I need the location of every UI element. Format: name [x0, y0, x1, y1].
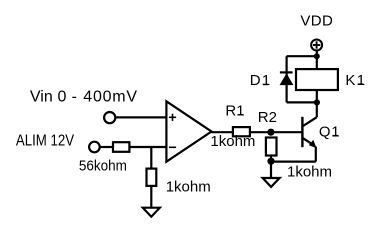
svg-text:Vin: Vin: [30, 89, 53, 106]
terminal ALIM: [89, 142, 100, 153]
relay coil K1: [296, 69, 338, 90]
junction top node: [314, 53, 320, 59]
ground below R2: [263, 178, 280, 187]
svg-text:1kohm: 1kohm: [287, 163, 332, 180]
wire R 56k to op-amp - input: [129, 146, 166, 148]
op-amp minus input marking: [169, 146, 176, 148]
svg-text:0: 0: [58, 89, 67, 106]
svg-text:D1: D1: [250, 72, 272, 89]
op-amp plus input marking: [169, 114, 176, 121]
svg-text:R2: R2: [258, 109, 277, 126]
svg-text:1kohm: 1kohm: [166, 179, 211, 196]
svg-text:K1: K1: [345, 72, 366, 89]
svg-text:Q1: Q1: [319, 123, 340, 140]
wire op-amp output to R1: [212, 131, 233, 133]
diode D1: [280, 72, 294, 85]
wire R 1k to ground: [150, 186, 152, 208]
wire R2 to ground: [270, 156, 272, 179]
power symbol VDD circle-plus: [311, 40, 322, 51]
ground below op-amp resistor: [143, 208, 160, 217]
svg-text:1kohm: 1kohm: [210, 133, 255, 150]
op-amp U1: [166, 101, 211, 161]
svg-text:VDD: VDD: [300, 13, 333, 30]
wire VDD down to relay top: [316, 50, 318, 69]
wire ALIM to R 56k: [100, 146, 113, 148]
svg-text:R1: R1: [225, 103, 244, 120]
junction emitter node: [267, 158, 274, 165]
wire tee down to R 1k: [150, 147, 152, 169]
transistor Q1: [302, 117, 316, 147]
wire relay bottom to collector: [316, 90, 318, 117]
resistor R2: [266, 138, 277, 156]
wire emitter to R2 bottom node: [271, 161, 316, 163]
terminal Vin: [104, 112, 115, 123]
svg-text:-: -: [72, 89, 77, 106]
svg-text:400mV: 400mV: [83, 89, 137, 106]
wire emitter down: [315, 147, 317, 162]
junction base node: [267, 129, 274, 136]
wire diode branch vertical: [286, 56, 288, 102]
transistor emitter arrow: [309, 140, 317, 148]
resistor R1: [233, 127, 250, 136]
wire R1 to base node: [250, 131, 303, 133]
wire top node to diode branch: [287, 55, 317, 57]
resistor 56kohm: [113, 142, 129, 152]
wire bottom node to diode branch: [287, 101, 317, 103]
wire Vin to op-amp + input: [116, 116, 167, 118]
svg-text:ALIM 12V: ALIM 12V: [16, 133, 74, 150]
junction bottom node: [314, 99, 320, 105]
svg-text:56kohm: 56kohm: [79, 158, 127, 175]
resistor 1kohm feedback: [147, 169, 157, 186]
